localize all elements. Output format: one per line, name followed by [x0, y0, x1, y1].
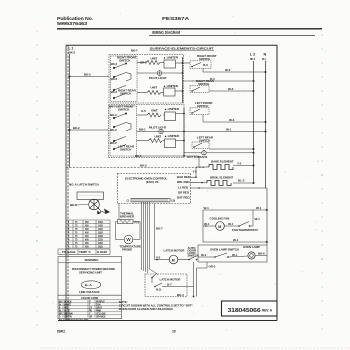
svg-text:M: M	[172, 258, 175, 262]
EOC wire bundle	[142, 202, 150, 273]
latch switch dashed box	[145, 274, 187, 297]
wire L2 bus	[253, 61, 255, 183]
svg-text:W-1: W-1	[233, 238, 239, 242]
svg-text:LINE VOLTAGE: LINE VOLTAGE	[79, 290, 100, 294]
svg-text:BR: BR	[59, 313, 63, 315]
outer box right border	[276, 45, 278, 321]
svg-text:PK: PK	[89, 310, 92, 312]
EOC connector strip	[131, 198, 170, 202]
svg-text:N: N	[264, 53, 267, 57]
svg-text:OVEN LAMP: OVEN LAMP	[243, 245, 260, 249]
svg-text:TAN: TAN	[96, 303, 101, 306]
wire to N y131.5	[184, 131, 266, 133]
svg-text:GREEN: GREEN	[64, 316, 72, 318]
svg-text:REV: A: REV: A	[262, 309, 273, 313]
svg-text:L1 RED: L1 RED	[178, 186, 189, 190]
oven lamp box	[198, 245, 267, 262]
switch sub-box A	[111, 56, 138, 102]
wire L1 to box B	[70, 129, 109, 131]
svg-text:BAK RED: BAK RED	[177, 175, 191, 179]
svg-text:FAN THERMOSTAT: FAN THERMOSTAT	[232, 228, 258, 232]
svg-text:BK-1: BK-1	[139, 128, 146, 132]
header rule	[57, 28, 322, 30]
wire to L2 y91	[209, 90, 254, 92]
wire to latch motor	[154, 204, 156, 260]
dashed separator under surface section	[66, 167, 205, 169]
svg-text:OVEN DOOR CLOSED AND UNLOCKED.: OVEN DOOR CLOSED AND UNLOCKED.	[119, 307, 174, 311]
switch sub-box B	[110, 106, 137, 156]
svg-text:W-1: W-1	[201, 253, 207, 257]
svg-text:BK-2: BK-2	[69, 51, 76, 55]
svg-text:PROBE: PROBE	[122, 248, 132, 252]
svg-text:BK-7: BK-7	[131, 49, 138, 53]
svg-text:318045066: 318045066	[228, 308, 261, 314]
svg-text:W-3: W-3	[228, 87, 234, 91]
svg-text:W-1: W-1	[255, 217, 261, 221]
svg-text:LATCH MOTOR: LATCH MOTOR	[160, 278, 182, 282]
svg-text:RED: RED	[64, 307, 69, 309]
svg-text:GAGE: GAGE	[67, 250, 76, 254]
svg-text:BK-2: BK-2	[111, 62, 118, 66]
svg-text:DR RED: DR RED	[178, 191, 190, 195]
svg-text:BK: BK	[59, 301, 63, 303]
svg-text:HOT SURFACE: HOT SURFACE	[187, 155, 208, 159]
svg-text:BK-7: BK-7	[156, 227, 163, 231]
vertical pair to latch area	[193, 262, 195, 297]
color code table	[58, 295, 122, 319]
svg-text:BL-2: BL-2	[238, 179, 245, 183]
wire to N y122	[209, 121, 266, 123]
svg-text:Y-2: Y-2	[193, 170, 198, 174]
inner bus A	[182, 57, 184, 103]
svg-text:▲ LIMITER: ▲ LIMITER	[164, 134, 180, 138]
svg-text:OVEN LAMP SWITCH: OVEN LAMP SWITCH	[210, 248, 239, 252]
svg-text:2452: 2452	[98, 242, 104, 245]
svg-text:SWITCH: SWITCH	[188, 253, 199, 257]
svg-text:2653: 2653	[98, 246, 104, 248]
svg-text:PINK: PINK	[96, 310, 102, 312]
svg-text:BK-2: BK-2	[110, 141, 117, 145]
svg-text:10: 10	[172, 330, 176, 334]
svg-text:BROIL ELEMENT: BROIL ELEMENT	[210, 176, 233, 180]
svg-text:15): 15)	[171, 199, 175, 203]
svg-text:▲ LIMITER: ▲ LIMITER	[163, 56, 179, 60]
svg-text:BK-2: BK-2	[110, 128, 117, 132]
svg-text:09/02: 09/02	[57, 330, 65, 334]
svg-text:BK-2: BK-2	[111, 90, 118, 94]
svg-text:UNIT: UNIT	[155, 135, 162, 139]
svg-text:W-1: W-1	[256, 206, 262, 210]
wires from surface section to bake/broil	[198, 156, 200, 167]
wire L1 to box A	[70, 76, 110, 78]
svg-text:COOLING FAN: COOLING FAN	[210, 217, 230, 221]
switch contacts B	[113, 113, 131, 150]
switch block box B	[109, 105, 185, 158]
resistance table	[66, 220, 110, 248]
svg-text:COLOR CODE: COLOR CODE	[81, 296, 99, 300]
title underline	[149, 35, 315, 37]
svg-text:PILOT LIGHT: PILOT LIGHT	[149, 126, 167, 130]
svg-text:ALL ELEMENTS RATED 240V: ALL ELEMENTS RATED 240V	[59, 318, 89, 321]
svg-text:W-1: W-1	[232, 253, 238, 257]
wire L1 bus	[69, 54, 71, 168]
part number box	[222, 301, 278, 316]
svg-text:UNIT: UNIT	[151, 109, 158, 113]
svg-text:FES367A: FES367A	[162, 16, 189, 21]
cooling fan circuit	[203, 209, 267, 211]
svg-text:(1: (1	[127, 199, 130, 203]
svg-text:BK-2: BK-2	[111, 77, 118, 81]
svg-text:BK-2: BK-2	[84, 73, 91, 77]
fan thermostat	[239, 222, 249, 227]
svg-text:Ω OHM: Ω OHM	[97, 250, 107, 254]
svg-text:N.O.: N.O.	[156, 288, 162, 292]
svg-text:SURFACE-ELEMENTS-CIRCUIT: SURFACE-ELEMENTS-CIRCUIT	[150, 46, 214, 50]
svg-text:B+ A-: B+ A-	[85, 283, 92, 287]
oven vent box	[77, 192, 104, 200]
svg-text:5995376463: 5995376463	[57, 21, 88, 26]
svg-text:OR: OR	[89, 316, 93, 318]
svg-text:1453: 1453	[98, 224, 104, 227]
svg-text:TEMP °C: TEMP °C	[79, 250, 92, 254]
oval	[81, 281, 101, 289]
svg-text:BAKE ELEMENT: BAKE ELEMENT	[211, 160, 234, 164]
outer box bottom border	[58, 320, 277, 322]
EOC box	[118, 174, 191, 204]
wire N bus	[265, 61, 267, 188]
svg-text:M: M	[218, 225, 221, 229]
wire right drop	[266, 188, 268, 245]
oven lamp	[248, 252, 255, 259]
outer box left double border	[65, 45, 67, 321]
wire EOC broil feed	[191, 181, 208, 184]
svg-text:BK-7: BK-7	[109, 105, 116, 109]
svg-text:L 2: L 2	[250, 53, 255, 57]
svg-text:BK-8: BK-8	[70, 203, 77, 207]
svg-text:2052: 2052	[98, 236, 104, 238]
svg-text:W-3: W-3	[229, 118, 235, 122]
svg-text:NO. A LATCH SWITCH: NO. A LATCH SWITCH	[69, 183, 99, 187]
pilot light A	[157, 71, 162, 76]
switch contacts A	[113, 63, 131, 99]
wire EOC L1 to right	[191, 187, 268, 189]
svg-text:OR-2: OR-2	[209, 265, 216, 269]
svg-text:BLACK: BLACK	[64, 300, 72, 303]
svg-text:W-1: W-1	[204, 222, 210, 226]
svg-text:R-3: R-3	[203, 63, 208, 67]
svg-text:W-1: W-1	[226, 128, 232, 132]
wire to L2 y81	[183, 80, 254, 82]
wire EOC bake feed	[191, 176, 197, 178]
svg-text:W-1: W-1	[204, 206, 210, 210]
faint film dots right column	[321, 34, 323, 330]
svg-text:BRL RED: BRL RED	[177, 180, 191, 184]
svg-text:GRAY: GRAY	[96, 306, 103, 309]
svg-text:2252: 2252	[98, 239, 104, 241]
svg-text:▲ LIMITER: ▲ LIMITER	[164, 107, 180, 111]
svg-text:WHITE: WHITE	[64, 304, 71, 306]
faint film dots left column	[36, 30, 38, 326]
svg-text:SERVICING UNIT: SERVICING UNIT	[79, 271, 102, 275]
svg-text:UNIT: UNIT	[151, 57, 158, 61]
svg-text:←TR: ←TR	[59, 250, 67, 254]
temperature probe	[116, 221, 118, 223]
svg-text:SWITCH: SWITCH	[118, 108, 129, 112]
outer box top border	[66, 44, 278, 46]
inner bus B	[183, 108, 185, 156]
warning box	[58, 257, 122, 296]
svg-text:BAT RED: BAT RED	[177, 196, 190, 200]
scribbled annotation blob	[89, 199, 105, 213]
svg-text:BK-2: BK-2	[140, 164, 147, 168]
svg-text:BK-4: BK-4	[177, 293, 184, 297]
svg-text:1654: 1654	[98, 228, 104, 231]
svg-text:SWITCH: SWITCH	[120, 148, 131, 152]
svg-text:1852: 1852	[98, 232, 104, 234]
wire to L2 y149	[209, 148, 254, 150]
svg-text:B-7: B-7	[167, 283, 172, 287]
svg-text:BK-2: BK-2	[73, 126, 80, 130]
svg-text:BK-6: BK-6	[250, 59, 256, 61]
svg-text:PURPLE: PURPLE	[96, 301, 105, 303]
svg-text:BLUE: BLUE	[64, 310, 70, 312]
svg-text:1091: 1091	[98, 222, 104, 224]
svg-text:SWITCH: SWITCH	[120, 92, 131, 96]
svg-text:(EOC) U3: (EOC) U3	[146, 180, 159, 184]
svg-text:BK-2: BK-2	[110, 113, 117, 117]
svg-text:W-1: W-1	[228, 222, 234, 226]
svg-text:▲ LIMITER: ▲ LIMITER	[163, 84, 179, 88]
svg-text:W-3: W-3	[225, 68, 231, 72]
svg-text:V-2: V-2	[156, 255, 161, 259]
switch block box A	[109, 55, 184, 104]
svg-text:BK-6: BK-6	[258, 252, 265, 256]
svg-text:WARNING: WARNING	[85, 258, 100, 262]
svg-text:G-5: G-5	[141, 109, 146, 113]
svg-text:ORANGE: ORANGE	[96, 315, 106, 318]
svg-text:BREAKER: BREAKER	[120, 215, 135, 219]
svg-text:SWITCH: SWITCH	[119, 59, 130, 63]
wire OR-2 below lamp box	[197, 262, 208, 268]
svg-text:LATCH MOTOR: LATCH MOTOR	[164, 249, 186, 253]
wire to N y72	[202, 68, 204, 72]
bottom faint rule	[40, 347, 350, 349]
svg-text:BROWN: BROWN	[64, 313, 73, 315]
svg-text:YELLOW: YELLOW	[96, 313, 106, 315]
svg-text:Y-2: Y-2	[237, 162, 242, 166]
table header row	[58, 249, 110, 255]
svg-text:PILOT LIGHT: PILOT LIGHT	[149, 76, 167, 80]
svg-text:UNIT: UNIT	[151, 86, 158, 90]
svg-text:WIRING DIAGRAM: WIRING DIAGRAM	[152, 30, 180, 35]
svg-text:R-2: R-2	[135, 221, 140, 225]
